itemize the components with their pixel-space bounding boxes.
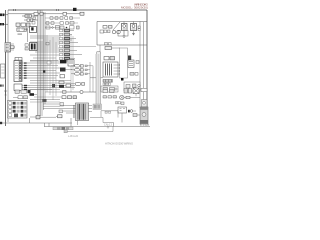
junction block JB1 bbox=[73, 103, 89, 121]
pin terminals CN20 bbox=[24, 62, 27, 78]
connector CN65 strip tail bbox=[64, 130, 67, 133]
control unit U4 box bbox=[103, 62, 121, 77]
connector CN31 bbox=[60, 68, 72, 72]
wire right verticals to bottom bbox=[99, 45, 101, 60]
wire fan drop bbox=[135, 94, 137, 97]
connector CN42 pair bbox=[104, 30, 110, 33]
mesh verticals mid bbox=[47, 34, 73, 100]
frame top border bbox=[8, 9, 147, 11]
connector CN30 rows bbox=[60, 60, 74, 67]
svg-text:MODEL: 30829(30): MODEL: 30829(30) bbox=[121, 6, 148, 10]
connector CN46 row bbox=[105, 43, 112, 45]
connector CN3 row bbox=[17, 28, 27, 31]
lamp cluster L1 bbox=[5, 43, 15, 53]
connector CN5b inline bbox=[40, 13, 43, 16]
ground GND2 bbox=[132, 31, 134, 36]
wire mid bottom e bbox=[30, 101, 60, 103]
ground GND1 bbox=[123, 31, 126, 38]
connector CN10 row bbox=[60, 29, 75, 32]
ground GND3 left rail bbox=[4, 91, 7, 95]
connector CN51 row bbox=[62, 96, 77, 99]
fuse FL2 bbox=[71, 69, 87, 72]
frame left border outer bbox=[5, 10, 7, 126]
wire bottom right bbox=[90, 118, 114, 123]
mesh wires horizontal group bbox=[30, 36, 72, 61]
wire drop bottom 2 bbox=[48, 123, 50, 127]
resistor block R1 grid bbox=[15, 58, 22, 66]
dark junction cross bbox=[30, 93, 35, 96]
wire SW1 right bbox=[24, 28, 28, 42]
connector CN16 row bbox=[60, 53, 83, 56]
wire relay stubs bbox=[124, 22, 134, 24]
relay K4 with coil bbox=[122, 24, 128, 31]
fuse FL1 bbox=[71, 65, 87, 68]
wire fuse links bbox=[87, 66, 93, 74]
battery B1 bbox=[118, 107, 127, 113]
sensor S1 bbox=[105, 47, 120, 50]
junction J3 dark bbox=[52, 84, 55, 87]
ground symbol bottom bbox=[107, 126, 109, 129]
wire harness bundle vertical bbox=[38, 10, 46, 116]
ECU box right top rectangle bbox=[97, 22, 147, 46]
starter motor M2 stack bbox=[140, 100, 148, 125]
sensor S2 row bbox=[104, 57, 115, 60]
frame tick 1 bbox=[14, 9, 16, 11]
wire right box bottom bbox=[101, 111, 118, 118]
terminal strip bottom TS2 bbox=[53, 127, 73, 130]
wire riser right B bbox=[92, 66, 94, 92]
relay K1 black bbox=[30, 27, 37, 33]
top row small connectors mid bbox=[50, 17, 73, 19]
fuse FL3 bbox=[71, 73, 87, 76]
connector CN15 row bbox=[60, 49, 78, 52]
connector CN-L3 left edge bbox=[0, 85, 4, 87]
svg-text:L-06 A-22: L-06 A-22 bbox=[68, 135, 79, 138]
wires out of JB1 bbox=[89, 106, 93, 112]
connector CN62 bbox=[36, 116, 40, 119]
relay K6 sub-box bbox=[118, 31, 128, 37]
wire top feed bbox=[8, 13, 80, 15]
frame left border inner bbox=[7, 10, 9, 122]
unit U3 internal lines bbox=[1, 67, 4, 73]
connector CN11 row bbox=[60, 33, 73, 36]
label text SW1 bbox=[18, 34, 23, 35]
bus right vertical 1 bbox=[143, 22, 145, 112]
connector CN5 inline bbox=[63, 12, 67, 15]
connector CN63 bbox=[56, 115, 62, 118]
wire mid bottom a bbox=[45, 91, 60, 93]
wire bus mid-bottom horizontal bbox=[60, 91, 96, 93]
box U8 lower bbox=[124, 82, 140, 91]
wire long row to trunk bbox=[80, 46, 96, 48]
connector CN21 lower bbox=[14, 84, 30, 91]
connector CN55 under line bbox=[105, 111, 111, 113]
wire diagonal bbox=[113, 22, 120, 30]
svg-text:HITACHI EX200 WIRING: HITACHI EX200 WIRING bbox=[105, 142, 133, 146]
harness trunk gray vertical bbox=[96, 54, 101, 108]
connector CN54 inline bbox=[59, 110, 63, 113]
resistor R2 bbox=[103, 26, 112, 29]
mesh wires mid horizontal bbox=[30, 61, 75, 90]
wire battery drop bbox=[121, 113, 123, 123]
connector CN70 bbox=[124, 89, 132, 94]
connector CN5a inline bbox=[34, 12, 38, 15]
svg-text:CN-12: CN-12 bbox=[104, 124, 113, 127]
connector CN73 bbox=[141, 88, 147, 91]
wires bottom area bbox=[30, 95, 60, 118]
right bottom area: fan motor M1 bbox=[133, 88, 139, 94]
wire mid bottom b bbox=[43, 105, 60, 107]
connector rows CN61 bbox=[13, 96, 28, 99]
connector CN50 bbox=[63, 91, 67, 94]
junction cluster J4 bbox=[43, 99, 47, 102]
fuse F2 bbox=[24, 19, 38, 21]
frame right border bbox=[146, 10, 148, 122]
connector CN4 bbox=[11, 46, 15, 49]
terminal strip TS1b hatched bbox=[103, 83, 111, 85]
connector CN74 bbox=[121, 102, 124, 105]
relay K5 with coil bbox=[131, 24, 137, 31]
wire riser right A bbox=[89, 62, 91, 92]
wire drop bottom 1 bbox=[44, 123, 46, 127]
connector CN41 bbox=[97, 52, 100, 55]
terminal board TB1 big bottom-left bbox=[8, 101, 28, 119]
connector CN75 pair bbox=[116, 102, 121, 104]
frame tick 2 bbox=[57, 9, 59, 11]
connector CN72 bbox=[133, 114, 140, 117]
connector CN-L1 left edge bbox=[0, 14, 8, 17]
frame bottom line 1 bbox=[0, 122, 72, 124]
connector CN17 row bbox=[60, 57, 76, 60]
connector rows CN60 bottom-left upper bbox=[15, 90, 31, 93]
switch SW1 bbox=[17, 28, 24, 31]
pin stubs CN20 bbox=[22, 63, 30, 78]
wire drop bottom right bbox=[113, 123, 115, 127]
connector CN44 pair bbox=[138, 26, 140, 31]
junction J2 dark bbox=[43, 70, 45, 72]
box U7 outline bbox=[120, 48, 128, 78]
connector CN12 row bbox=[60, 37, 77, 40]
connector CN33 row bbox=[59, 81, 71, 88]
small row y96 right bbox=[103, 96, 117, 98]
fuse F1 bbox=[22, 15, 38, 17]
connector CN7 bbox=[25, 44, 28, 46]
second small row bbox=[46, 22, 74, 25]
frame bottom line 2 bbox=[44, 126, 150, 128]
terminal lug left edge bbox=[0, 122, 2, 124]
connector CN6 end bbox=[80, 12, 84, 15]
bus right vertical 2 bbox=[139, 22, 141, 109]
wire bottom long bbox=[67, 127, 113, 132]
terminal strip TS1 hatched bbox=[103, 80, 113, 83]
solenoid SV1 black bbox=[30, 43, 38, 51]
fuse FL4 bbox=[71, 82, 85, 85]
component U6 right mid bbox=[128, 60, 134, 68]
connector CN71 hatched bbox=[128, 110, 136, 113]
wire mid bottom c bbox=[30, 89, 60, 91]
wires into JB1 bbox=[60, 106, 76, 114]
connector CN5c small bbox=[33, 17, 35, 19]
connector CN45 left bbox=[100, 30, 104, 33]
junction dot J1 bbox=[121, 78, 124, 81]
solenoid SV2 dark bbox=[128, 56, 131, 61]
box left edge unit U3 bbox=[1, 64, 6, 78]
node ring N1 bbox=[80, 90, 83, 93]
third small row bbox=[46, 26, 79, 30]
connector CN9 bbox=[46, 42, 49, 45]
connector CN32 bbox=[60, 75, 65, 78]
wire rows top mid bbox=[45, 18, 80, 28]
diode D1 on frame bbox=[73, 8, 77, 11]
wire JB1 down bbox=[77, 121, 79, 126]
connector CN2 row bbox=[16, 23, 30, 27]
connector CN8 bbox=[25, 48, 28, 50]
connector CN52 bbox=[60, 103, 64, 107]
connector CN34 bbox=[47, 61, 51, 64]
connector CN13 row bbox=[60, 41, 79, 44]
wire across trunk bbox=[90, 77, 103, 79]
wire drop TB1 bbox=[29, 118, 31, 123]
connector CN53 trunk end bbox=[93, 104, 102, 110]
connector CN43 small bbox=[136, 61, 139, 64]
connector CN-L2 left edge bbox=[0, 23, 8, 25]
connector big CN20 with pins bbox=[14, 61, 22, 82]
gauge G2 circles bbox=[112, 30, 120, 34]
small row above JB1 bbox=[103, 90, 114, 93]
connector CN40 bbox=[130, 73, 138, 76]
connector CN14 row bbox=[60, 45, 81, 48]
connector CN5d small bbox=[32, 21, 35, 24]
lamp WL1 bbox=[120, 95, 140, 99]
wire mid bottom d bbox=[34, 96, 62, 98]
wire drop bottom 3 bbox=[70, 118, 72, 127]
unit U5 box bbox=[101, 86, 118, 92]
